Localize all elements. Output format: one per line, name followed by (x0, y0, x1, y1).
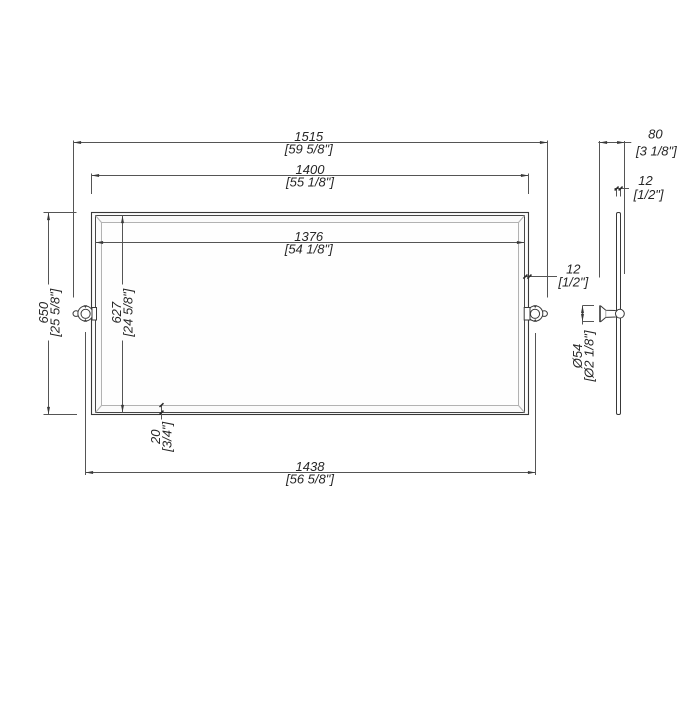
bevel miter diagonal top-right (519, 216, 525, 223)
dimension 80 extension line right (624, 141, 626, 274)
dimension 1376 line (96, 242, 525, 244)
dimension 1438 extension line left (85, 332, 87, 475)
dimension 650 line lower segment (48, 341, 50, 415)
dimension 80 arrow left (600, 141, 608, 144)
dimension 650 extension line bottom (44, 414, 78, 416)
dimension 1438 arrow right (528, 471, 536, 474)
dimension 650 extension line top (44, 212, 77, 214)
left pivot plate (92, 308, 97, 321)
right pivot plate (524, 308, 530, 321)
dimension 12 side tick left (615, 187, 619, 191)
dimension diameter 54 tick bottom (583, 321, 595, 323)
bevel miter diagonal bottom-left (96, 406, 102, 413)
dimension 20 leader line (161, 405, 163, 420)
dimension 627 line lower segment (122, 341, 124, 413)
dimension 1376 arrow right (517, 241, 525, 244)
dimension 80 arrow right (617, 141, 625, 144)
dimension 12 side line (615, 188, 630, 190)
dimension 627 arrow top (121, 216, 124, 224)
dimension 1400 line (92, 175, 529, 177)
dimension 1515 arrow left (74, 141, 82, 144)
dimension diameter 54 arrow bottom (581, 314, 584, 322)
dimension 1376 arrow left (96, 241, 104, 244)
dimension 12 front line (526, 276, 558, 278)
dimension 12 front tick at face line (523, 275, 527, 279)
dimension 1400 arrow left (92, 174, 100, 177)
side pivot ball (616, 309, 625, 318)
dimension diameter 54 arrow top (581, 306, 584, 314)
dimension diameter 54 tick top (583, 305, 595, 307)
dimension 1515 extension line left (73, 141, 75, 298)
dimension 12 side stem left (616, 189, 618, 197)
dimension 1438 line (86, 472, 536, 474)
side bracket flange face (599, 305, 601, 322)
bevel miter diagonal top-left (96, 216, 102, 223)
left pivot ear (73, 311, 79, 317)
dimension 12 side stem right (620, 189, 622, 197)
dimension diameter 54 line (582, 306, 584, 325)
mirror frame outer rect (92, 213, 529, 415)
left pivot knob outer circle (78, 306, 93, 321)
right pivot knob inner circle (530, 309, 539, 318)
side bracket neck junction (605, 310, 607, 317)
dimension 650 arrow bottom (47, 407, 50, 415)
dimension 650 arrow top (47, 213, 50, 221)
right pivot knob bottom wedge (533, 319, 537, 322)
dimension 650 line upper segment (48, 213, 50, 285)
side bracket trumpet bottom edge (601, 317, 616, 322)
side bracket trumpet top edge (601, 306, 616, 311)
left pivot knob bottom wedge (84, 319, 88, 322)
dimension 627 line upper segment (122, 216, 124, 285)
dimension 627 arrow bottom (121, 405, 124, 413)
dimension 1400 extension line right (528, 174, 530, 195)
right pivot knob outer circle (528, 306, 543, 321)
left pivot knob inner circle (81, 309, 90, 318)
dimension 1515 arrow right (540, 141, 548, 144)
bevel miter diagonal bottom-right (519, 406, 525, 413)
dimension 12 front tick at outer edge (527, 275, 531, 279)
side view mirror profile bar (617, 213, 621, 415)
dimension 1438 extension line right (535, 333, 537, 475)
dimension 80 line (598, 142, 631, 144)
dimension 12 side tick right (619, 187, 623, 191)
dimension 1438 arrow left (86, 471, 94, 474)
right pivot knob top wedge (533, 305, 537, 308)
mirror bevel rect (102, 223, 519, 406)
right pivot ear (541, 311, 547, 317)
dimension 1400 extension line left (91, 174, 93, 195)
dimension 80 extension line left (599, 141, 601, 278)
dimension 20 tick at bevel line (160, 403, 164, 407)
dimension 20 tick at face line (160, 411, 164, 415)
mirror frame face rect (96, 216, 525, 413)
dimension 1400 arrow right (521, 174, 529, 177)
dimension 1515 line (74, 142, 548, 144)
dimension 1515 extension line right (547, 141, 549, 298)
left pivot knob top wedge (84, 305, 88, 308)
